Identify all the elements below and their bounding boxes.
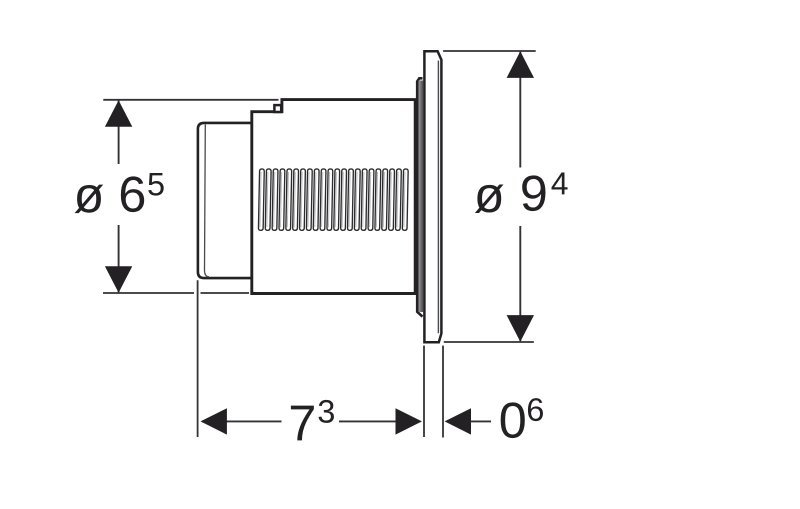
label 0.6 [501, 398, 543, 438]
extension line bottom right (o9.4) [444, 341, 534, 343]
label o9.4 [475, 173, 568, 213]
extension line top left (o6.5) [103, 99, 278, 101]
body outline [252, 100, 415, 294]
label o6.5 [75, 173, 164, 213]
flange main plate [424, 51, 441, 342]
dimension line o9.4 [507, 51, 534, 341]
flange chamfer inner line [437, 61, 439, 334]
extension line bottom left (o6.5) [103, 292, 249, 294]
cap inner face line [205, 124, 210, 276]
dimension line 0.6 [445, 408, 491, 434]
cap outline [198, 123, 253, 278]
extension line shared vertical (7.3 / 0.6) [423, 346, 425, 437]
flange narrow plate [417, 78, 423, 316]
ribbed thread section [258, 169, 408, 230]
extension line left vertical (7.3) [197, 280, 199, 437]
body top step notch [274, 105, 281, 112]
extension line right vertical (0.6) [442, 346, 444, 438]
dimension line 7.3 [201, 408, 422, 434]
extension line top right (o9.4) [443, 50, 536, 52]
label 7.3 [291, 400, 334, 440]
dimension line o6.5 [105, 100, 132, 293]
